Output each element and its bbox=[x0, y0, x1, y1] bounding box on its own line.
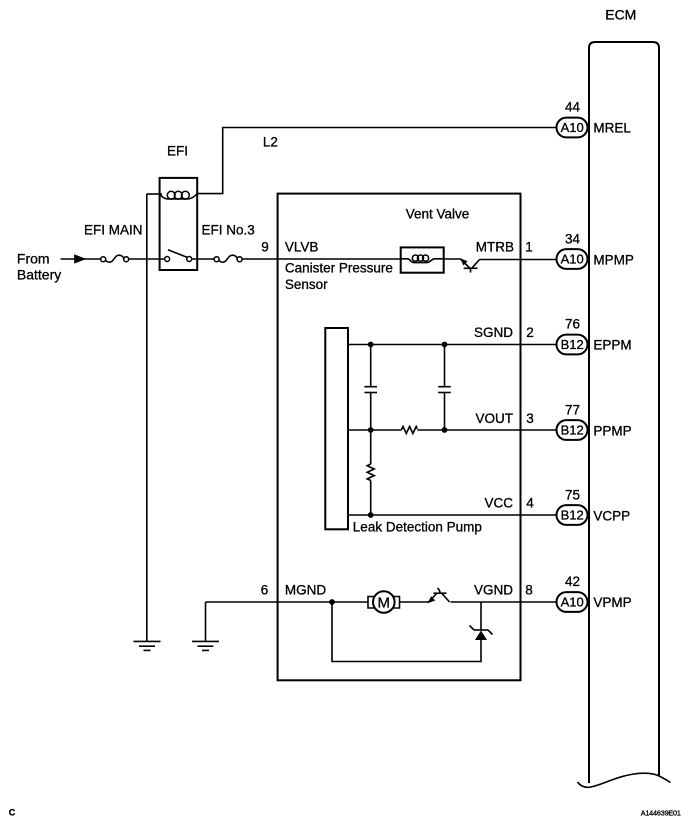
svg-text:A10: A10 bbox=[561, 252, 584, 267]
svg-text:EPPM: EPPM bbox=[593, 337, 631, 352]
svg-text:EFI MAIN: EFI MAIN bbox=[84, 223, 143, 238]
svg-text:ECM: ECM bbox=[605, 7, 636, 23]
svg-text:2: 2 bbox=[526, 325, 534, 340]
svg-text:8: 8 bbox=[525, 583, 533, 598]
svg-text:Vent Valve: Vent Valve bbox=[406, 207, 470, 222]
svg-text:EFI: EFI bbox=[167, 144, 188, 159]
svg-text:VCPP: VCPP bbox=[593, 508, 630, 523]
svg-text:75: 75 bbox=[565, 487, 580, 502]
svg-text:6: 6 bbox=[261, 583, 269, 598]
svg-text:44: 44 bbox=[565, 99, 581, 114]
svg-text:MGND: MGND bbox=[285, 583, 326, 598]
svg-text:4: 4 bbox=[526, 496, 534, 511]
svg-text:VGND: VGND bbox=[474, 583, 513, 598]
svg-text:76: 76 bbox=[565, 316, 580, 331]
svg-text:From: From bbox=[17, 250, 50, 266]
svg-text:9: 9 bbox=[261, 240, 269, 255]
svg-text:EFI No.3: EFI No.3 bbox=[202, 223, 255, 238]
svg-text:Sensor: Sensor bbox=[285, 277, 328, 292]
svg-text:34: 34 bbox=[565, 231, 581, 246]
svg-text:M: M bbox=[378, 594, 391, 611]
svg-text:Leak Detection Pump: Leak Detection Pump bbox=[353, 520, 482, 535]
svg-text:VPMP: VPMP bbox=[593, 595, 631, 610]
svg-text:42: 42 bbox=[565, 574, 580, 589]
svg-text:MPMP: MPMP bbox=[593, 252, 634, 267]
svg-text:3: 3 bbox=[526, 411, 534, 426]
svg-text:A144639E01: A144639E01 bbox=[641, 808, 681, 817]
svg-text:VCC: VCC bbox=[484, 496, 513, 511]
svg-text:Canister Pressure: Canister Pressure bbox=[285, 261, 393, 276]
svg-text:77: 77 bbox=[565, 402, 580, 417]
svg-text:C: C bbox=[9, 807, 16, 817]
svg-text:B12: B12 bbox=[561, 337, 584, 352]
svg-text:A10: A10 bbox=[561, 120, 584, 135]
svg-text:Battery: Battery bbox=[17, 267, 61, 283]
svg-text:1: 1 bbox=[525, 240, 533, 255]
svg-text:B12: B12 bbox=[561, 508, 584, 523]
svg-text:PPMP: PPMP bbox=[593, 423, 631, 438]
svg-text:MTRB: MTRB bbox=[476, 240, 514, 255]
svg-text:MREL: MREL bbox=[593, 120, 631, 135]
svg-text:VLVB: VLVB bbox=[285, 240, 319, 255]
svg-text:A10: A10 bbox=[561, 595, 584, 610]
svg-text:B12: B12 bbox=[561, 423, 584, 438]
svg-text:VOUT: VOUT bbox=[475, 411, 513, 426]
svg-text:L2: L2 bbox=[263, 134, 278, 149]
svg-text:SGND: SGND bbox=[474, 325, 513, 340]
